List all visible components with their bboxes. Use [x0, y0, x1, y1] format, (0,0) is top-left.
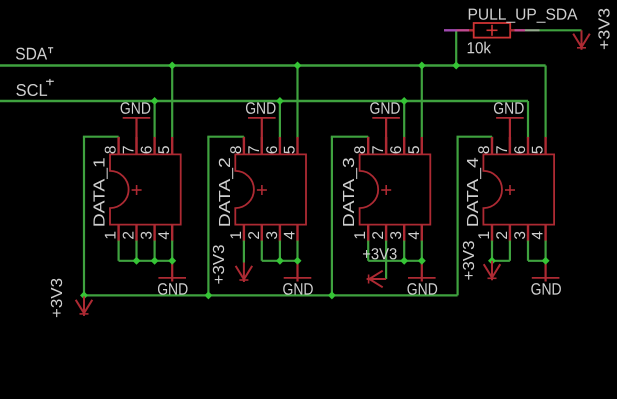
pin number 1 U2: [228, 231, 245, 240]
svg-text:2: 2: [494, 231, 511, 240]
wire SDA drop to IC2 pin 5: [296, 66, 298, 139]
svg-text:2: 2: [246, 231, 263, 240]
node junction SDA / resistor net: [452, 62, 460, 70]
wire PULL_UP_SDA net drop to SDA: [455, 30, 457, 65]
svg-text:3: 3: [264, 231, 281, 240]
ground GND symbol below U3 pin 4: [408, 261, 436, 282]
pin 8 of U2 (top stub): [243, 137, 245, 154]
svg-text:PULL_UP_SDA: PULL_UP_SDA: [467, 7, 577, 24]
pin 5 of U2 (top stub): [296, 137, 298, 154]
svg-text:8: 8: [103, 145, 120, 154]
svg-text:10k: 10k: [466, 40, 491, 57]
node junction +3V3 bus x=331.9: [328, 291, 336, 299]
node junction SCL / IC2 pin 6: [276, 97, 284, 105]
svg-text:1: 1: [228, 231, 245, 240]
node junction U1 pin 2 / gnd line: [133, 257, 141, 265]
svg-text:DATA_4: DATA_4: [465, 157, 482, 227]
pin 2 of U2 (bottom stub): [261, 225, 263, 242]
wire U2 pins 2-4 to GND net: [262, 241, 298, 261]
ground GND symbol below U1 pin 4: [158, 261, 186, 282]
label GND (bottom, U1): [157, 281, 188, 299]
svg-text:+3V3: +3V3: [461, 240, 478, 280]
svg-text:2: 2: [370, 231, 387, 240]
pin number 6 U2: [264, 145, 281, 154]
svg-text:3: 3: [139, 231, 156, 240]
label net SCL: [16, 79, 54, 100]
label +3V3 (U1, bottom left): [49, 278, 66, 318]
svg-text:3: 3: [512, 231, 529, 240]
label net SDA: [15, 45, 53, 64]
ground GND symbol above U3 pin 7: [372, 118, 400, 154]
svg-text:GND: GND: [493, 100, 524, 118]
svg-text:6: 6: [139, 145, 156, 154]
pin number 6 U1: [139, 145, 156, 154]
pin number 1 U1: [103, 231, 120, 240]
pin 1 of U4 (bottom stub): [491, 225, 493, 242]
pin 4 of U4 (bottom stub): [544, 225, 546, 242]
pin number 8 U4: [476, 145, 493, 154]
pin 6 of U4 (top stub): [527, 137, 529, 154]
svg-text:SDA: SDA: [15, 45, 48, 64]
label GND (top, U1): [120, 100, 151, 118]
pin number 5 U3: [406, 145, 423, 154]
wire U4 pins 3-4 to GND net: [528, 241, 546, 261]
node junction U1 pin 4 / gnd line: [168, 257, 176, 265]
pin number 2 U3: [370, 231, 387, 240]
pin 1 of U3 (bottom stub): [367, 225, 369, 242]
svg-text:7: 7: [494, 145, 511, 154]
pin 3 of U4 (bottom stub): [527, 225, 529, 242]
pin 2 of U4 (bottom stub): [509, 225, 511, 242]
label value 10k: [466, 40, 491, 57]
supply +3V3 arrow at U2 pin 1: [236, 263, 253, 283]
pin 2 of U3 (bottom stub): [385, 225, 387, 242]
wire U4 pins 1-2 to +3V3: [492, 241, 510, 261]
pin number 7 U3: [370, 145, 387, 154]
label GND (bottom, U3): [407, 281, 438, 299]
pin number 4 U3: [406, 231, 423, 240]
node junction U1 pin 3 / gnd line: [151, 257, 159, 265]
node junction SDA / IC1 pin 5: [168, 62, 176, 70]
svg-text:DATA_3: DATA_3: [341, 157, 358, 227]
pin 6 of U1 (top stub): [153, 137, 155, 154]
pin 7 of U2 (top stub): [261, 137, 263, 154]
svg-text:+3V3: +3V3: [49, 278, 66, 318]
pin 5 of U3 (top stub): [421, 137, 423, 154]
supply +3V3 arrow at U4 pin 1: [484, 261, 501, 281]
pin 5 of U1 (top stub): [171, 137, 173, 154]
pin 2 of R1 (right stub): [510, 29, 514, 31]
pin 7 of U1 (top stub): [135, 137, 137, 154]
pin 7 of U4 (top stub): [509, 137, 511, 154]
svg-text:GND: GND: [531, 281, 562, 299]
pin number 3 U2: [264, 231, 281, 240]
svg-text:1: 1: [476, 231, 493, 240]
label GND (bottom, U2): [282, 281, 313, 299]
svg-text:1: 1: [352, 231, 369, 240]
pin number 8 U3: [352, 145, 369, 154]
supply +3V3 arrow at bus left end: [76, 296, 93, 316]
pin number 6 U3: [388, 145, 405, 154]
pin 3 of U3 (bottom stub): [403, 225, 405, 242]
resistor R1 body: [474, 23, 511, 38]
wire to +3V3 arrow top right: [540, 29, 582, 31]
svg-text:+3V3: +3V3: [597, 8, 614, 50]
svg-text:5: 5: [282, 145, 299, 154]
node junction U3 pin 4 / gnd line: [418, 257, 426, 265]
svg-text:7: 7: [121, 145, 138, 154]
pin number 2 U1: [121, 231, 138, 240]
svg-text:GND: GND: [157, 281, 188, 299]
pin number 5 U1: [156, 145, 173, 154]
node junction U2 pin 3 / gnd line: [276, 257, 284, 265]
pin number 7 U2: [246, 145, 263, 154]
wire magenta segment right of R1: [515, 29, 526, 31]
pin number 5 U2: [282, 145, 299, 154]
pin 6 of U2 (top stub): [279, 137, 281, 154]
pin 4 of U1 (bottom stub): [171, 225, 173, 242]
pin 8 of U4 (top stub): [491, 137, 493, 154]
svg-text:8: 8: [352, 145, 369, 154]
pin 5 of U4 (top stub): [544, 137, 546, 154]
supply +3V3 arrow at U3 (pointing left): [367, 271, 387, 288]
label GND (top, U3): [369, 100, 400, 118]
svg-text:GND: GND: [407, 281, 438, 299]
svg-text:6: 6: [388, 145, 405, 154]
pin 8 of U3 (top stub): [367, 137, 369, 154]
pin number 4 U4: [530, 231, 547, 240]
svg-text:8: 8: [476, 145, 493, 154]
op-amp U3 DATA_3 body: [360, 154, 431, 224]
pin number 7 U4: [494, 145, 511, 154]
svg-text:GND: GND: [282, 281, 313, 299]
svg-text:GND: GND: [120, 100, 151, 118]
wire SDA drop to IC1 pin 5: [171, 66, 173, 139]
node junction U2 pin 4 / gnd line: [294, 257, 302, 265]
node junction U3 pin 3 / gnd line: [400, 257, 408, 265]
pin 1 of R1 (left stub): [469, 29, 474, 31]
svg-text:+3V3: +3V3: [211, 244, 228, 284]
pin number 3 U3: [388, 231, 405, 240]
pin 4 of U3 (bottom stub): [421, 225, 423, 242]
svg-text:4: 4: [530, 231, 547, 240]
svg-text:5: 5: [406, 145, 423, 154]
svg-text:7: 7: [246, 145, 263, 154]
label +3V3 (U2): [211, 244, 228, 284]
pin 3 of U2 (bottom stub): [279, 225, 281, 242]
wire U1 pins 1-4 to GND net: [119, 241, 173, 261]
pin 6 of U3 (top stub): [403, 137, 405, 154]
wire +3V3 bottom bus: [84, 294, 458, 296]
wire SDA corner drop to IC4 pin 5: [544, 66, 546, 139]
pin number 3 U1: [139, 231, 156, 240]
wire +3V3 rail for IC2 pin 8: [207, 137, 244, 296]
svg-text:GND: GND: [369, 100, 400, 118]
wire +3V3 rail for IC4 pin 8: [457, 137, 493, 296]
pin number 1 U4: [476, 231, 493, 240]
svg-text:DATA_1: DATA_1: [92, 157, 109, 227]
pin 7 of U3 (top stub): [385, 137, 387, 154]
wire SCL corner drop to IC4 pin 6: [527, 101, 529, 138]
wire +3V3 rail for IC1 pin 8: [83, 137, 119, 296]
node junction SCL / IC1 pin 6: [151, 97, 159, 105]
svg-text:1: 1: [103, 231, 120, 240]
pin number 1 U3: [352, 231, 369, 240]
wire SCL drop to IC1 pin 6: [154, 101, 156, 138]
pin number 7 U1: [121, 145, 138, 154]
node junction U4 pin 4 / gnd line: [542, 257, 550, 265]
wire +3V3 rail for IC3 pin 8: [331, 137, 368, 296]
svg-text:4: 4: [156, 231, 173, 240]
svg-text:+3V3: +3V3: [362, 246, 397, 263]
pin number 6 U4: [512, 145, 529, 154]
node junction SDA / IC2 pin 5: [294, 62, 302, 70]
pin 3 of U1 (bottom stub): [153, 225, 155, 242]
wire SDA drop to IC3 pin 5: [421, 66, 423, 139]
svg-text:6: 6: [512, 145, 529, 154]
svg-text:6: 6: [264, 145, 281, 154]
pin number 2 U4: [494, 231, 511, 240]
svg-text:4: 4: [406, 231, 423, 240]
op-amp U1 DATA_1 body: [110, 154, 181, 224]
ground GND symbol below U2 pin 4: [284, 261, 312, 282]
svg-text:7: 7: [370, 145, 387, 154]
pin 1 of U1 (bottom stub): [117, 225, 119, 242]
svg-text:SCL: SCL: [16, 81, 48, 100]
pin number 8 U2: [228, 145, 245, 154]
node junction +3V3 bus x=208.4: [204, 291, 212, 299]
pin 4 of U2 (bottom stub): [296, 225, 298, 242]
ground GND symbol above U4 pin 7: [496, 118, 524, 154]
wire pale segment right of R1: [525, 29, 540, 31]
ground GND symbol below U4 pin 4: [532, 261, 560, 282]
svg-text:GND: GND: [245, 100, 276, 118]
svg-text:DATA_2: DATA_2: [217, 157, 234, 227]
label designator DATA_4: [465, 157, 482, 227]
pin 2 of U1 (bottom stub): [135, 225, 137, 242]
svg-text:3: 3: [388, 231, 405, 240]
pin number 2 U2: [246, 231, 263, 240]
label GND (top, U4): [493, 100, 524, 118]
pin number 8 U1: [103, 145, 120, 154]
ground GND symbol above U2 pin 7: [248, 118, 276, 154]
wire net SDA horizontal: [0, 64, 546, 66]
pin number 4 U2: [282, 231, 299, 240]
op-amp U2 DATA_2 body: [235, 154, 306, 224]
node junction +3V3 bus x=84: [80, 291, 88, 299]
op-amp U4 DATA_4 body: [483, 154, 554, 224]
svg-text:8: 8: [228, 145, 245, 154]
label +3V3 (U3): [362, 246, 397, 263]
svg-text:5: 5: [156, 145, 173, 154]
svg-text:2: 2: [121, 231, 138, 240]
node junction SDA / IC3 pin 5: [418, 62, 426, 70]
label +3V3 (top right): [597, 8, 614, 50]
svg-text:5: 5: [530, 145, 547, 154]
node junction SCL / IC3 pin 6: [400, 97, 408, 105]
label designator DATA_3: [341, 157, 358, 227]
pin number 3 U4: [512, 231, 529, 240]
supply +3V3 arrow top right: [573, 30, 590, 50]
label GND (bottom, U4): [531, 281, 562, 299]
wire SCL drop to IC2 pin 6: [279, 101, 281, 138]
node junction U4 pin 1 / +3V3: [488, 257, 496, 265]
svg-text:4: 4: [282, 231, 299, 240]
wire U2 pin 1 to +3V3: [243, 241, 245, 263]
label designator DATA_2: [217, 157, 234, 227]
wire magenta segment left of R1: [444, 29, 469, 31]
pin number 5 U4: [530, 145, 547, 154]
wire U3 pins 1-4 bottom line: [368, 241, 422, 279]
pin 8 of U1 (top stub): [117, 137, 119, 154]
label GND (top, U2): [245, 100, 276, 118]
pin 1 of U2 (bottom stub): [243, 225, 245, 242]
ground GND symbol above U1 pin 7: [123, 118, 151, 154]
label designator DATA_1: [92, 157, 109, 227]
wire net SCL horizontal: [0, 100, 528, 102]
label designator PULL_UP_SDA: [467, 7, 577, 24]
wire SCL drop to IC3 pin 6: [403, 101, 405, 138]
pin number 4 U1: [156, 231, 173, 240]
label +3V3 (U4): [461, 240, 478, 280]
